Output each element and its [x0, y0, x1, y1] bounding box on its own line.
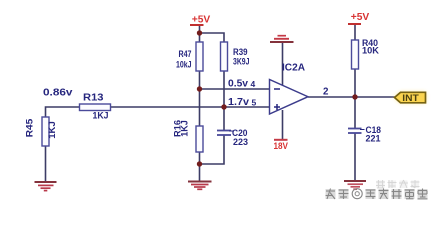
resistor R40 [352, 38, 380, 69]
capacitor C18 [348, 125, 381, 145]
wire: column R vertical (+5V R40 C18 ground) [354, 25, 356, 180]
junction dot at +5V rail split [197, 30, 202, 35]
op-amp U1 IC2A [270, 62, 309, 114]
svg-text:IC2A: IC2A [282, 62, 305, 73]
wire: bottom input net from R45 corner to op-amp + input [46, 107, 270, 118]
svg-text:INT: INT [402, 93, 419, 103]
svg-text:4: 4 [251, 79, 256, 89]
svg-text:R13: R13 [83, 93, 104, 104]
svg-text:1KJ: 1KJ [93, 111, 109, 122]
wire: column A vertical (R47/R16 chain) [199, 25, 201, 181]
ground (right, under C18, behind watermark) [344, 181, 366, 189]
svg-text:0.86v: 0.86v [43, 87, 73, 98]
power +5V (middle) [190, 14, 211, 25]
resistor R16 [173, 120, 203, 152]
junction dot at 1.7v node [221, 104, 226, 109]
wire: top rail +5V to R39 [200, 33, 225, 42]
watermark line 1 (faint grey hanzi) [376, 180, 420, 188]
wire: R45 bottom lead to ground [45, 146, 47, 181]
junction dot at output / R40 / C18 [352, 94, 357, 99]
resistor R45 [25, 117, 58, 146]
wire: op-amp output to INT [308, 96, 395, 98]
pin 2 label [323, 87, 329, 98]
resistor R39 [221, 42, 250, 71]
ground (middle, under divider) [188, 182, 212, 190]
svg-text:R45: R45 [25, 119, 35, 138]
net label 0.86v [43, 87, 73, 98]
junction dot at bottom rail [197, 161, 202, 166]
svg-text:R47: R47 [179, 49, 192, 60]
svg-text:221: 221 [366, 133, 382, 144]
power +5V (right) [348, 12, 370, 24]
wire: op-amp top power pin [282, 43, 284, 86]
svg-text:+5V: +5V [351, 12, 370, 23]
INT connector flag (highlighted) [395, 92, 426, 103]
svg-text:5: 5 [252, 97, 257, 107]
svg-text:10K: 10K [362, 46, 379, 57]
svg-text:1KJ: 1KJ [47, 121, 57, 139]
svg-text:1.7v: 1.7v [228, 97, 250, 108]
power 18V below op-amp (red bar) [274, 140, 289, 151]
resistor R13 [80, 93, 111, 122]
capacitor C20 [217, 128, 248, 148]
svg-text:223: 223 [233, 137, 248, 148]
watermark line 2 (grey hanzi: tou tiao @ ge zhuan xiu dian qi) [326, 189, 428, 200]
wire: C20 bottom to bottom rail [200, 135, 225, 164]
svg-text:+5V: +5V [192, 14, 211, 25]
wire: column B vertical (R39/C20 chain) [223, 42, 225, 130]
junction dot at 0.5v node [197, 86, 202, 91]
svg-text:10kJ: 10kJ [176, 60, 192, 71]
resistor R47 [176, 42, 203, 71]
power ground above op-amp (red, bars up) [270, 36, 294, 42]
svg-text:18V: 18V [274, 141, 289, 151]
svg-text:2: 2 [323, 87, 329, 98]
wire: 0.5v net from divider to op-amp - input [200, 88, 270, 90]
svg-text:0.5v: 0.5v [228, 79, 249, 90]
svg-text:3K9J: 3K9J [233, 57, 249, 68]
svg-text:1KJ: 1KJ [180, 120, 190, 137]
net label 1.7v and pin 5 [228, 97, 257, 108]
net label 0.5v and pin 4 [228, 79, 256, 90]
wire: op-amp bottom power pin [282, 110, 284, 140]
ground (left, under R45) [35, 182, 57, 191]
